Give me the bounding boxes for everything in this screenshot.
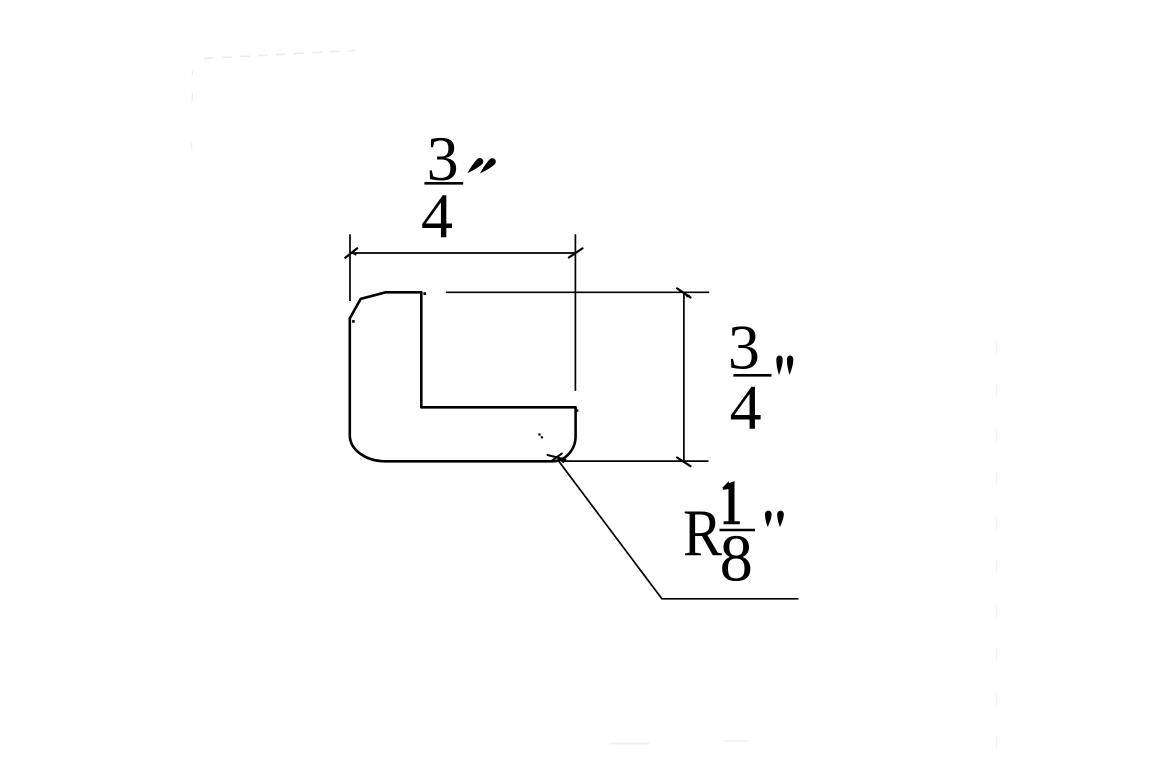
top dimension line xyxy=(351,252,577,254)
right dim straight double quote xyxy=(776,356,793,376)
svg-text:4: 4 xyxy=(421,180,453,251)
stray dot on top edge xyxy=(423,292,426,295)
radius straight double quote xyxy=(765,511,784,527)
faint artifact dashes left xyxy=(191,71,194,151)
top dim extension line right xyxy=(574,234,576,391)
stray dot on left edge xyxy=(352,320,355,323)
right dim extension line top xyxy=(446,291,709,293)
top dim fraction bar xyxy=(424,182,463,185)
svg-text:R: R xyxy=(683,495,722,569)
right dim top mini arrow xyxy=(684,293,691,298)
faint artifact dashed line top xyxy=(204,51,355,59)
radius leader polyline xyxy=(558,460,799,599)
right dim fraction bar xyxy=(733,374,771,377)
radius fraction bar xyxy=(720,529,756,532)
svg-text:8: 8 xyxy=(720,523,753,596)
stray dot at notch corner xyxy=(576,409,578,411)
stray dot pair near bottom-right xyxy=(538,433,540,435)
right dimension line xyxy=(683,293,685,462)
top dim extension line left xyxy=(349,234,351,301)
top dim right tick xyxy=(569,248,583,257)
L-profile outline xyxy=(350,292,576,461)
radius text 1 (custom narrow serif one) xyxy=(723,481,740,524)
top dim left tick xyxy=(345,248,357,257)
svg-text:4: 4 xyxy=(730,372,762,443)
top dim left mini arrow xyxy=(351,252,357,255)
radius leader X tick xyxy=(548,454,566,462)
radius leader arrowhead xyxy=(557,458,567,463)
right dim bottom tick xyxy=(677,458,690,467)
faint artifact vertical right xyxy=(996,340,998,772)
right dim top tick xyxy=(677,288,690,297)
right dim extension line bottom xyxy=(563,460,709,462)
top dim slanted double prime xyxy=(467,158,495,173)
faint artifact dashes bottom xyxy=(609,741,749,744)
